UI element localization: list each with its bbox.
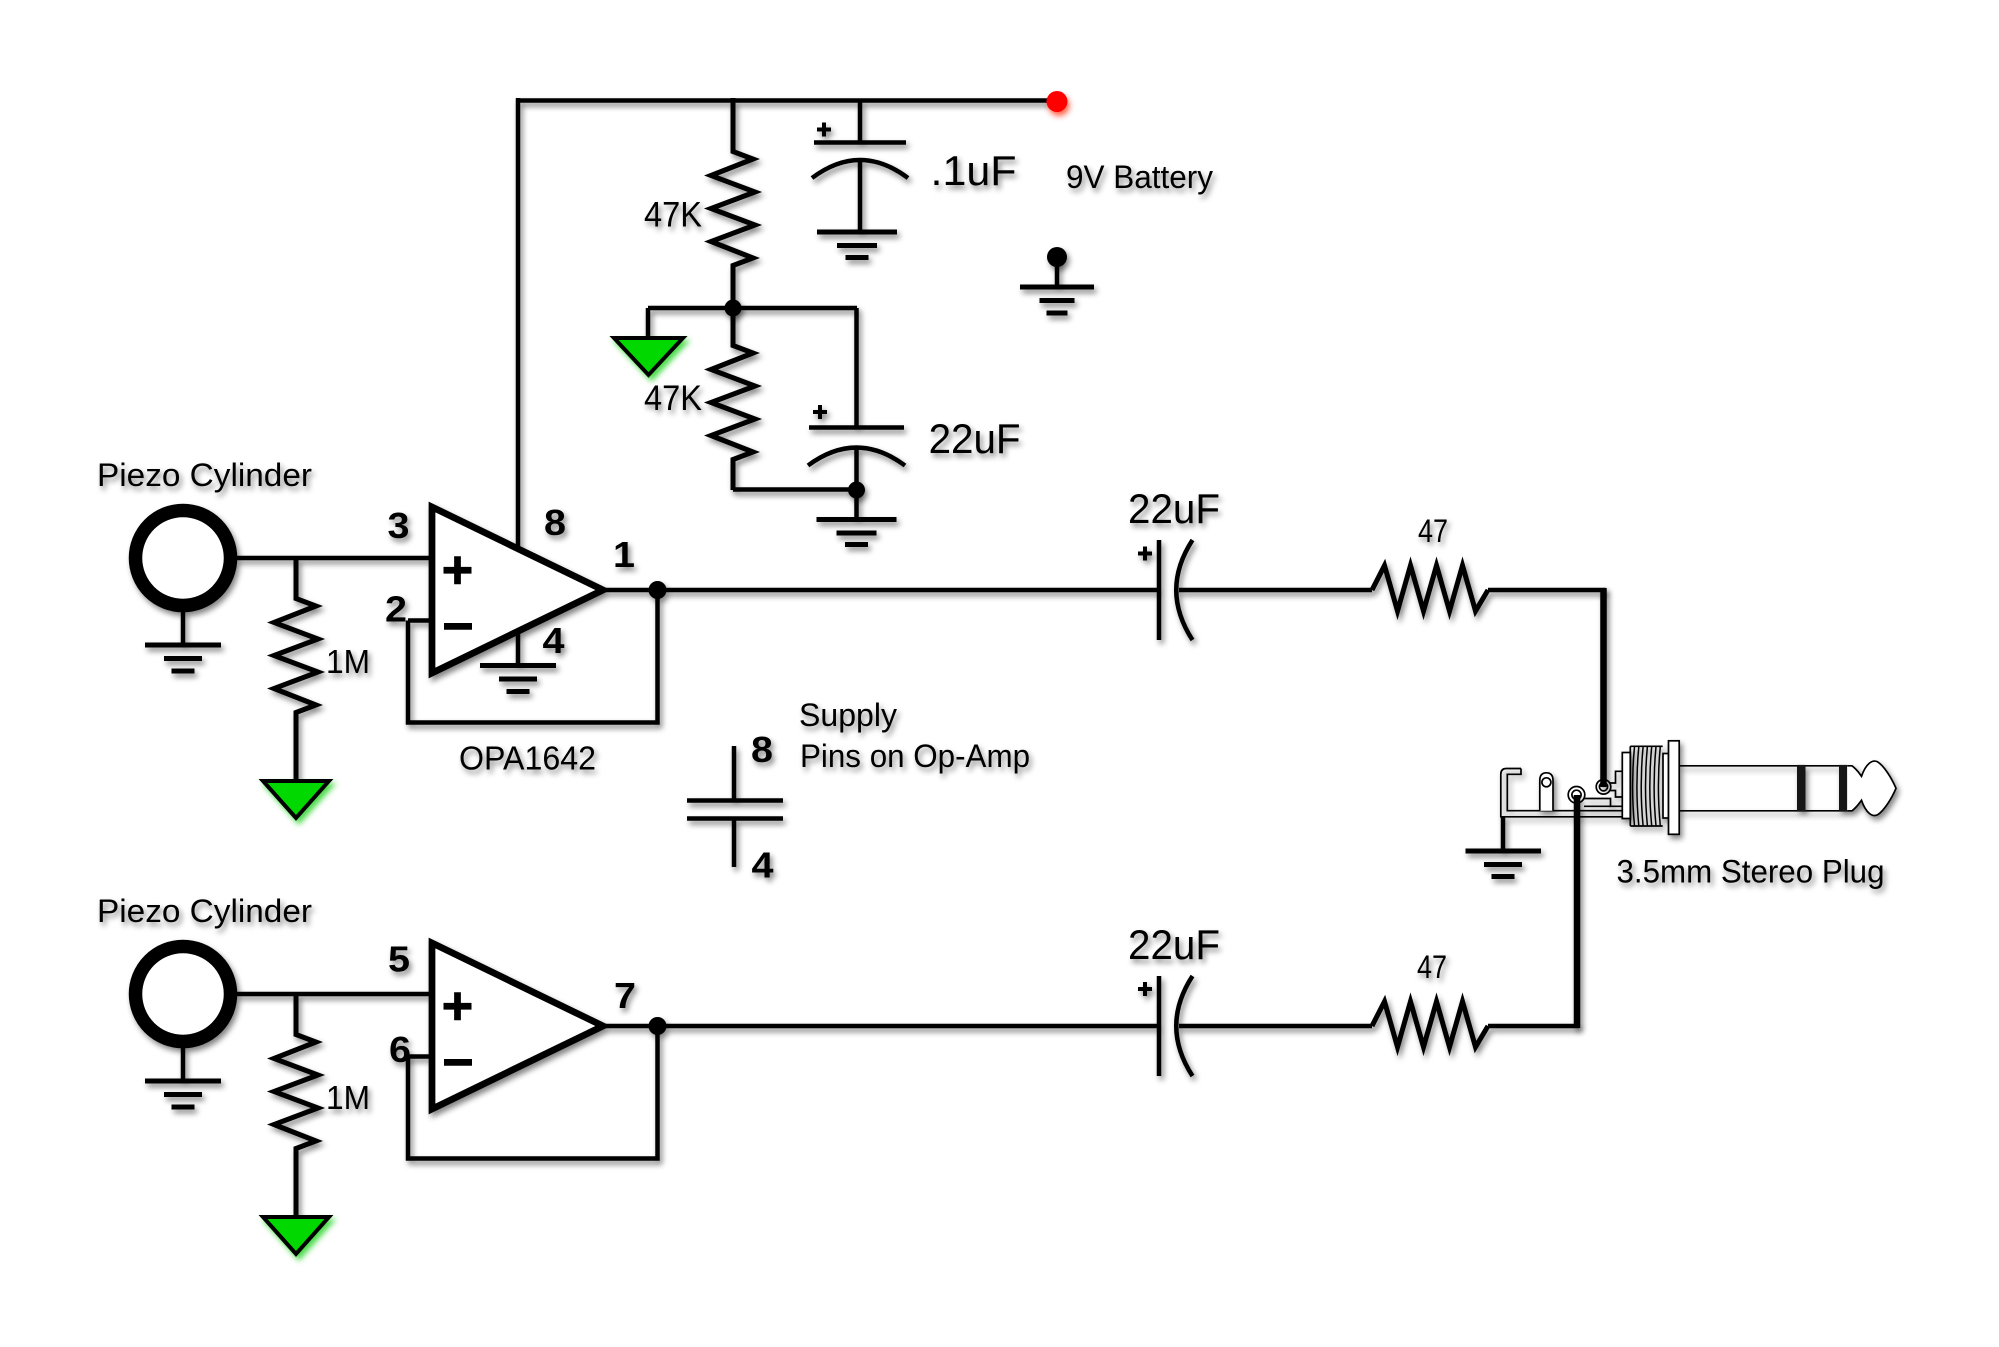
svg-text:47K: 47K bbox=[644, 196, 702, 235]
svg-text:.1uF: .1uF bbox=[931, 147, 1017, 194]
svg-text:6: 6 bbox=[389, 1029, 411, 1070]
svg-text:22uF: 22uF bbox=[929, 415, 1021, 462]
svg-text:2: 2 bbox=[385, 589, 407, 630]
svg-text:Piezo Cylinder: Piezo Cylinder bbox=[97, 457, 312, 493]
svg-text:47K: 47K bbox=[644, 379, 702, 418]
svg-text:9V Battery: 9V Battery bbox=[1066, 159, 1213, 195]
svg-text:OPA1642: OPA1642 bbox=[459, 740, 596, 777]
svg-text:1: 1 bbox=[613, 534, 635, 575]
svg-text:Pins on Op-Amp: Pins on Op-Amp bbox=[800, 738, 1030, 774]
svg-text:8: 8 bbox=[544, 502, 566, 543]
svg-text:Supply: Supply bbox=[799, 697, 897, 733]
svg-text:1M: 1M bbox=[326, 644, 370, 681]
svg-text:4: 4 bbox=[543, 620, 565, 661]
svg-text:7: 7 bbox=[614, 975, 636, 1016]
svg-text:22uF: 22uF bbox=[1128, 921, 1220, 968]
svg-text:5: 5 bbox=[388, 939, 410, 980]
svg-text:47: 47 bbox=[1418, 513, 1448, 549]
svg-text:Piezo Cylinder: Piezo Cylinder bbox=[97, 893, 312, 929]
svg-text:22uF: 22uF bbox=[1128, 485, 1220, 532]
svg-text:8: 8 bbox=[751, 729, 773, 770]
svg-text:3.5mm Stereo Plug: 3.5mm Stereo Plug bbox=[1617, 854, 1885, 890]
svg-text:4: 4 bbox=[752, 845, 774, 886]
svg-text:47: 47 bbox=[1417, 949, 1447, 985]
svg-text:1M: 1M bbox=[326, 1080, 370, 1117]
svg-text:3: 3 bbox=[388, 505, 410, 546]
